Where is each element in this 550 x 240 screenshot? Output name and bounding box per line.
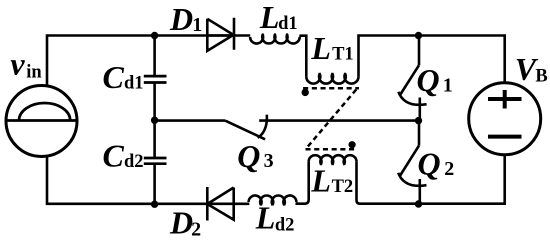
junction node mid left	[151, 117, 158, 124]
svg-text:L: L	[255, 200, 276, 236]
svg-text:C: C	[103, 138, 125, 174]
capacitor Cd2	[144, 158, 167, 164]
svg-text:d1: d1	[278, 14, 298, 34]
label Q3	[237, 138, 273, 174]
svg-text:2: 2	[444, 158, 454, 180]
svg-text:d2: d2	[124, 152, 144, 172]
svg-text:L: L	[310, 30, 331, 66]
wire Ld2 to LT2	[296, 162, 309, 204]
label Ld2	[255, 200, 295, 236]
label LT2	[310, 163, 353, 199]
svg-text:L: L	[259, 0, 280, 35]
junction node top right	[415, 32, 422, 39]
core line LT1 (dashed)	[303, 87, 359, 90]
wire capacitor column top	[153, 36, 156, 77]
svg-text:L: L	[310, 163, 331, 199]
polarity dot LT1	[302, 89, 309, 96]
svg-text:v: v	[10, 46, 25, 82]
wire Q1 bottom lead	[418, 98, 421, 121]
wire Q1 top lead	[418, 36, 421, 66]
label D2	[169, 205, 201, 240]
capacitor Cd1	[144, 76, 167, 82]
svg-text:T1: T1	[332, 45, 354, 65]
svg-text:T2: T2	[332, 177, 354, 197]
svg-text:in: in	[26, 62, 42, 82]
inductor Ld2	[249, 196, 297, 206]
wire capacitor column middle	[153, 83, 156, 158]
wire LT2 to bottom rail right and VB bottom lead	[357, 155, 505, 204]
svg-text:B: B	[535, 66, 547, 86]
wire bottom-left rail	[47, 156, 249, 204]
transformer winding LT2	[309, 155, 357, 165]
inductor Ld1	[250, 34, 300, 44]
junction node bottom right	[415, 200, 422, 207]
polarity dot LT2	[349, 141, 356, 148]
label Q2	[418, 146, 455, 182]
label Cd1	[103, 59, 144, 95]
wire capacitor column bottom	[153, 164, 156, 204]
core line LT2 (dashed)	[306, 148, 356, 151]
svg-text:Q: Q	[417, 62, 440, 98]
svg-text:D: D	[169, 1, 193, 37]
svg-text:1: 1	[443, 74, 453, 96]
junction node Cd1 top	[151, 32, 158, 39]
svg-text:Q: Q	[237, 138, 260, 174]
svg-text:d2: d2	[275, 216, 295, 236]
source VB circle	[469, 83, 541, 155]
junction node mid right	[415, 117, 422, 124]
label Ld1	[259, 0, 298, 35]
wire Q2 top lead	[418, 121, 421, 146]
label VB	[515, 51, 548, 87]
wire mid rail left	[155, 119, 226, 122]
wire mid rail right	[259, 119, 418, 122]
switch Q1	[398, 65, 426, 105]
source vin circle	[6, 86, 77, 157]
wire top-left rail	[47, 36, 250, 88]
switch Q2	[398, 146, 426, 186]
svg-text:D: D	[169, 205, 193, 240]
svg-text:1: 1	[192, 14, 202, 36]
wire Ld1 to LT1	[300, 36, 307, 77]
junction node Cd2 bottom	[151, 201, 158, 208]
core coupling diagonal (dashed)	[307, 90, 356, 148]
wire Q2 bottom lead	[418, 179, 421, 204]
svg-text:d1: d1	[124, 74, 144, 94]
label LT1	[310, 30, 353, 66]
label vin	[10, 46, 42, 83]
diode D1	[207, 18, 234, 51]
svg-text:Q: Q	[418, 146, 441, 182]
wire LT1 to top rail right and VB top lead	[359, 36, 505, 83]
svg-text:3: 3	[264, 150, 274, 172]
label Q1	[417, 62, 453, 98]
label D1	[169, 1, 202, 37]
label Cd2	[103, 138, 144, 174]
diode D2	[207, 187, 233, 221]
transformer winding LT1	[306, 73, 358, 84]
svg-text:2: 2	[191, 219, 201, 240]
svg-text:C: C	[103, 59, 125, 95]
switch Q3	[225, 115, 267, 140]
